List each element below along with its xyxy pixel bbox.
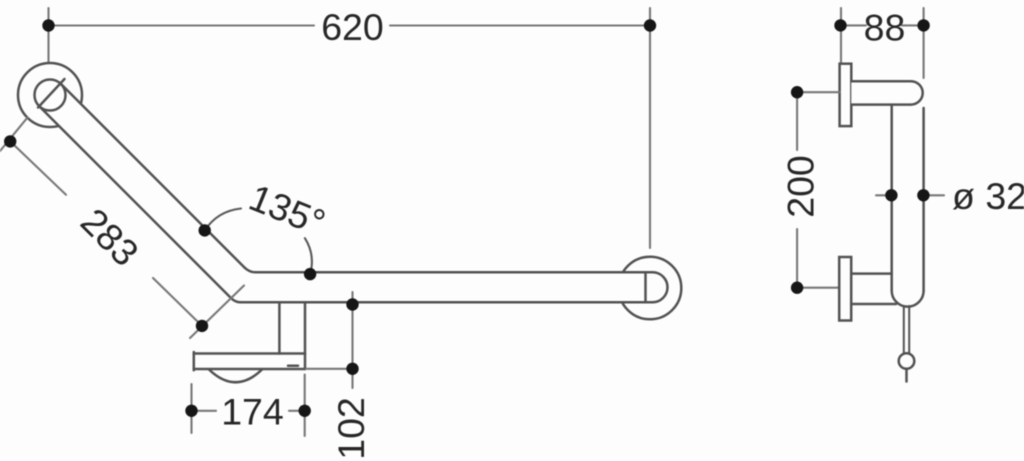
top wall plate bbox=[840, 64, 852, 126]
left wall flange (outer circle) bbox=[18, 63, 82, 127]
grab bar body (white fill over flanges) bbox=[39, 84, 653, 302]
dimension 283 endpoint dots bbox=[4, 135, 208, 332]
paper holder post bbox=[279, 303, 305, 369]
svg-text:174: 174 bbox=[221, 391, 284, 433]
svg-text:88: 88 bbox=[864, 7, 906, 49]
dimension 88 dots bbox=[834, 19, 930, 31]
dimension 174 bbox=[192, 375, 305, 437]
bottom mounting arm bbox=[851, 274, 896, 304]
bar end cut hatch in left flange bbox=[38, 79, 65, 108]
dimension 102 dots bbox=[346, 298, 358, 375]
paper holder spring clip arc bbox=[209, 370, 262, 383]
svg-text:135°: 135° bbox=[243, 176, 331, 244]
right bar end dome cap bbox=[653, 272, 668, 302]
diameter 32 callout bbox=[876, 194, 944, 196]
dimension 102 bbox=[306, 292, 353, 388]
left flange collar circle bbox=[35, 80, 66, 111]
dimension 200 bbox=[797, 92, 840, 288]
right wall flange (outer circle) bbox=[619, 257, 682, 320]
paper holder plate bbox=[194, 352, 305, 370]
angle 135 arc bbox=[205, 209, 312, 275]
dimension 620 line bbox=[49, 8, 651, 248]
dimension 88 bbox=[841, 8, 924, 78]
dimension 174 dots bbox=[185, 405, 311, 417]
svg-text:283: 283 bbox=[73, 200, 147, 274]
top mounting arm with rounded cap bbox=[851, 81, 922, 104]
svg-text:200: 200 bbox=[780, 155, 822, 218]
diameter 32 dots bbox=[885, 189, 929, 201]
grab bar edges bbox=[39, 84, 653, 302]
paper holder spindle tip bbox=[288, 365, 298, 368]
svg-text:620: 620 bbox=[321, 6, 384, 48]
paper holder pin (side view) bbox=[904, 306, 909, 354]
knob tick bbox=[905, 369, 908, 381]
svg-text:ø 32: ø 32 bbox=[952, 175, 1024, 217]
bottom wall plate bbox=[839, 257, 851, 321]
svg-text:102: 102 bbox=[330, 397, 372, 460]
angle 135 dots bbox=[199, 224, 317, 280]
right bar end: flat ellipse edge bbox=[644, 273, 647, 302]
dimension 200 dots bbox=[791, 86, 803, 294]
dimension 620 endpoint dots bbox=[42, 19, 656, 31]
side-view bar (vertical) bbox=[892, 105, 924, 307]
paper holder knob bbox=[899, 353, 915, 369]
dimension 283 (aligned, 45deg) bbox=[0, 118, 244, 339]
